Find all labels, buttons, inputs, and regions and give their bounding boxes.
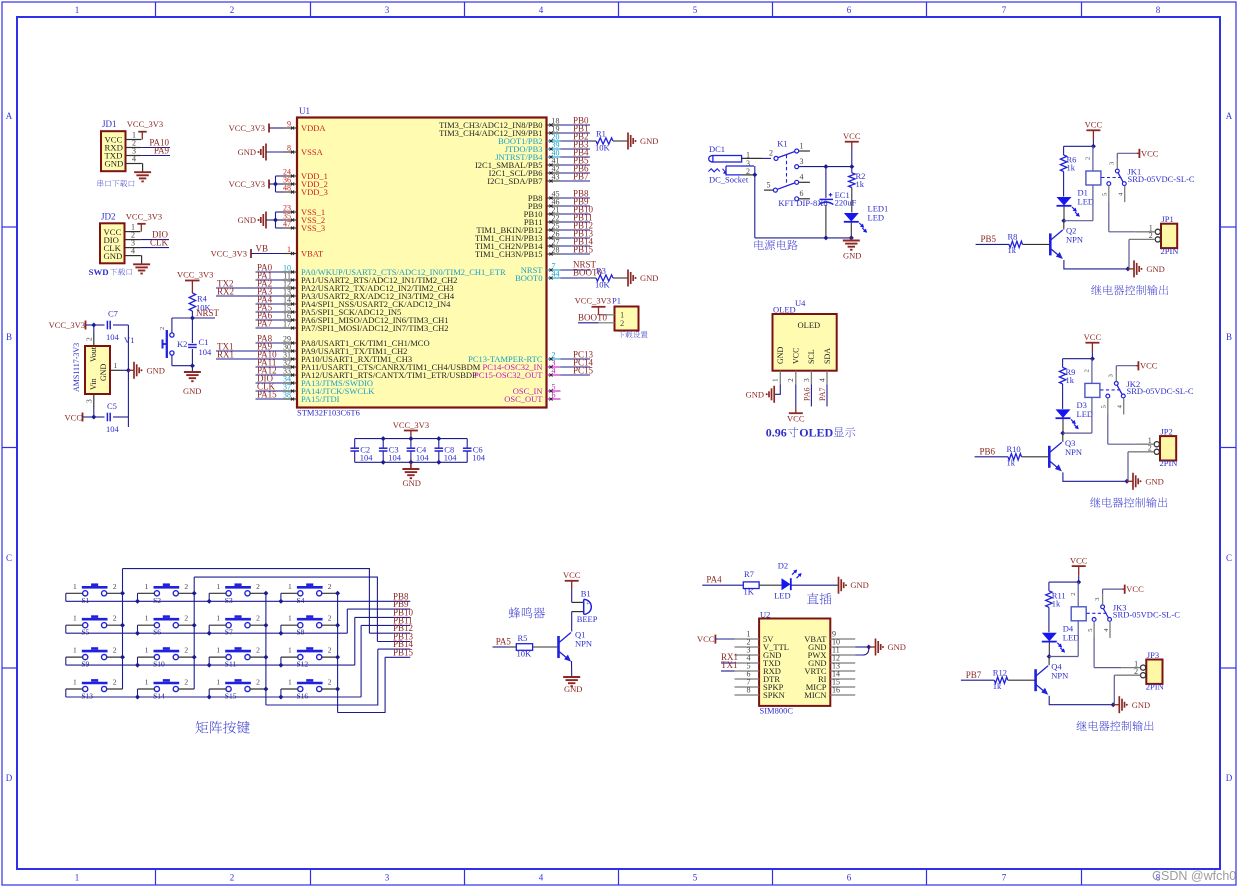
svg-text:2PIN: 2PIN <box>1161 246 1179 256</box>
node PB12 <box>561 229 591 231</box>
resistor R6 <box>1060 155 1066 172</box>
node PA5 <box>256 311 284 313</box>
svg-text:2: 2 <box>256 646 260 655</box>
svg-text:CSDN @wfch0: CSDN @wfch0 <box>1152 869 1236 883</box>
ground <box>1128 268 1134 270</box>
wire <box>572 611 584 613</box>
svg-text:GND: GND <box>1146 264 1164 274</box>
svg-text:S12: S12 <box>297 660 309 669</box>
svg-text:2: 2 <box>184 614 188 623</box>
svg-text:VDDA: VDDA <box>301 123 326 133</box>
label 下载设置 <box>618 331 648 338</box>
regulator V1 AMS1117-3V3 <box>85 346 110 394</box>
button S6 <box>154 623 159 628</box>
wire column 1 <box>122 569 124 689</box>
svg-text:1k: 1k <box>1008 245 1017 255</box>
svg-text:GND: GND <box>888 642 906 652</box>
svg-text:SDA: SDA <box>823 348 832 364</box>
svg-text:TIM1_CH3N/PB15: TIM1_CH3N/PB15 <box>475 249 543 259</box>
wire <box>94 324 105 326</box>
svg-text:1: 1 <box>145 646 149 655</box>
label 直插 <box>807 593 831 605</box>
svg-text:2PIN: 2PIN <box>1160 458 1178 468</box>
LED LED1 <box>851 188 853 213</box>
svg-text:VCC_3V3: VCC_3V3 <box>49 320 85 330</box>
ground <box>410 462 412 469</box>
svg-text:1: 1 <box>216 646 220 655</box>
node PB0 <box>561 124 591 126</box>
svg-text:NRST: NRST <box>196 308 220 318</box>
ground <box>141 163 142 165</box>
svg-text:1: 1 <box>216 614 220 623</box>
svg-text:3: 3 <box>802 378 811 382</box>
svg-text:S11: S11 <box>225 660 237 669</box>
svg-text:104: 104 <box>106 332 120 342</box>
svg-text:GND: GND <box>1145 476 1163 486</box>
svg-text:GND: GND <box>850 580 868 590</box>
relay JK1 SRD-05VDC-SL-C <box>1086 171 1101 185</box>
wire column 3 <box>265 593 267 705</box>
svg-text:TX1: TX1 <box>721 660 738 670</box>
wire <box>755 237 852 239</box>
svg-text:2: 2 <box>159 327 166 330</box>
svg-text:GND: GND <box>776 346 785 364</box>
node DIO <box>256 382 284 384</box>
label 矩阵按键 <box>195 721 249 734</box>
svg-text:NPN: NPN <box>1065 447 1082 457</box>
resistor R1 <box>590 140 596 142</box>
svg-text:5: 5 <box>1087 629 1094 632</box>
ground (U2) <box>855 646 869 648</box>
wire <box>208 593 210 601</box>
svg-text:1k: 1k <box>1052 598 1061 608</box>
svg-text:PB5: PB5 <box>981 234 997 244</box>
svg-text:3: 3 <box>1094 598 1101 601</box>
svg-text:NPN: NPN <box>575 639 592 649</box>
button S2 <box>154 591 159 596</box>
svg-text:104: 104 <box>199 347 213 357</box>
node PC13 <box>561 358 591 360</box>
wire <box>1128 239 1130 269</box>
svg-text:VSSA: VSSA <box>301 147 324 157</box>
svg-text:1: 1 <box>73 678 77 687</box>
svg-text:SRD-05VDC-SL-C: SRD-05VDC-SL-C <box>1128 174 1195 184</box>
svg-text:PB15: PB15 <box>573 245 594 255</box>
svg-text:10K: 10K <box>595 280 611 290</box>
svg-text:NPN: NPN <box>1051 670 1068 680</box>
svg-text:GND: GND <box>1132 700 1150 710</box>
node TX2 <box>216 287 256 289</box>
svg-text:GND: GND <box>183 386 201 396</box>
svg-text:2: 2 <box>328 614 332 623</box>
svg-text:1: 1 <box>145 614 149 623</box>
node PA6 <box>256 319 284 321</box>
svg-text:GND: GND <box>640 273 658 283</box>
ground <box>838 577 840 594</box>
transistor Q4 <box>1034 669 1037 691</box>
wire <box>1062 384 1064 409</box>
resistor R7 <box>743 582 759 589</box>
svg-text:2: 2 <box>1084 369 1091 372</box>
svg-text:D: D <box>6 773 13 783</box>
wire <box>208 625 210 633</box>
svg-text:1: 1 <box>216 582 220 591</box>
wire row 2 <box>66 632 348 634</box>
node DIO <box>140 239 169 241</box>
wire <box>571 661 573 677</box>
svg-text:S16: S16 <box>297 692 309 701</box>
svg-text:GND: GND <box>403 478 421 488</box>
node NRST <box>191 311 193 318</box>
svg-text:3: 3 <box>385 873 390 883</box>
svg-text:2: 2 <box>113 582 117 591</box>
node PA9 <box>256 350 284 352</box>
svg-text:S3: S3 <box>225 596 233 605</box>
svg-text:2: 2 <box>184 646 188 655</box>
svg-text:2: 2 <box>1070 593 1077 596</box>
svg-text:VCC: VCC <box>563 570 581 580</box>
svg-text:JP3: JP3 <box>1147 650 1159 660</box>
node TX1 <box>216 350 256 352</box>
svg-text:VCC: VCC <box>1140 361 1158 371</box>
node PB14 <box>561 245 591 247</box>
wire <box>280 689 282 697</box>
svg-text:104: 104 <box>416 453 430 463</box>
svg-text:1: 1 <box>771 378 780 382</box>
node PB1 <box>561 132 591 134</box>
svg-text:S4: S4 <box>297 596 305 605</box>
svg-text:K1: K1 <box>777 139 787 149</box>
resistor R9 <box>1059 367 1065 384</box>
svg-text:LED: LED <box>774 591 791 601</box>
svg-text:10K: 10K <box>595 143 611 153</box>
node PB15 <box>561 253 591 255</box>
node PB6 <box>561 172 591 174</box>
svg-text:VCC_3V3: VCC_3V3 <box>211 249 247 259</box>
svg-text:3: 3 <box>85 399 94 403</box>
svg-text:1: 1 <box>288 678 292 687</box>
svg-text:VCC_3V3: VCC_3V3 <box>127 119 163 129</box>
button S11 <box>226 655 231 660</box>
ground <box>563 676 580 678</box>
svg-text:4: 4 <box>539 873 544 883</box>
svg-text:4: 4 <box>1117 404 1124 408</box>
svg-text:1k: 1k <box>1067 163 1076 173</box>
wire <box>759 584 781 586</box>
svg-text:1: 1 <box>287 245 291 254</box>
svg-text:GND: GND <box>104 251 123 261</box>
svg-text:1: 1 <box>75 5 80 15</box>
label 继电器控制输出 <box>1077 721 1154 731</box>
button S9 <box>83 655 88 660</box>
svg-text:VCC_3V3: VCC_3V3 <box>177 270 213 280</box>
wire <box>137 625 139 633</box>
svg-text:10K: 10K <box>517 649 533 659</box>
label 串口下载口 <box>97 180 134 187</box>
svg-text:48: 48 <box>283 184 291 193</box>
svg-text:1: 1 <box>216 678 220 687</box>
transistor Q1 <box>557 636 560 658</box>
wire <box>1064 260 1128 269</box>
svg-text:PB7: PB7 <box>966 670 982 680</box>
svg-text:1k: 1k <box>993 681 1002 691</box>
svg-text:1: 1 <box>75 873 80 883</box>
svg-text:2: 2 <box>256 582 260 591</box>
svg-text:VSS_3: VSS_3 <box>301 223 325 233</box>
svg-text:2: 2 <box>328 582 332 591</box>
svg-text:104: 104 <box>106 424 120 434</box>
svg-text:7: 7 <box>1002 873 1007 883</box>
svg-text:D2: D2 <box>778 560 788 570</box>
svg-text:C: C <box>1226 553 1232 563</box>
wire <box>208 689 210 697</box>
svg-text:GND: GND <box>238 147 256 157</box>
svg-text:SRD-05VDC-SL-C: SRD-05VDC-SL-C <box>1113 610 1180 620</box>
svg-text:2: 2 <box>328 646 332 655</box>
svg-text:S1: S1 <box>81 596 89 605</box>
label 蜂鸣器 <box>509 607 545 618</box>
svg-text:PB6: PB6 <box>980 446 996 456</box>
wire <box>113 324 128 326</box>
wire <box>171 355 173 366</box>
wire <box>194 577 377 641</box>
svg-text:R12: R12 <box>993 667 1007 677</box>
wire <box>354 617 356 665</box>
svg-text:S9: S9 <box>81 660 89 669</box>
svg-text:OLED: OLED <box>773 305 796 315</box>
button S15 <box>226 686 231 691</box>
svg-text:JP1: JP1 <box>1162 214 1174 224</box>
svg-text:Vin: Vin <box>89 378 98 390</box>
wire <box>137 593 139 601</box>
node PA6 <box>810 385 812 407</box>
svg-text:R3: R3 <box>596 266 606 276</box>
button K2 <box>170 333 174 337</box>
wire <box>1063 472 1127 481</box>
wire column 2 <box>193 577 195 689</box>
svg-text:GND: GND <box>843 251 861 261</box>
svg-text:R5: R5 <box>518 633 528 643</box>
svg-text:PA7: PA7 <box>818 388 827 402</box>
node PA10 <box>256 358 284 360</box>
node PA8 <box>256 342 284 344</box>
wire <box>1091 352 1093 358</box>
power VCC (contact) <box>1115 366 1117 371</box>
button S14 <box>154 686 159 691</box>
wire <box>93 409 95 417</box>
node PA11 <box>256 366 284 368</box>
wire <box>1093 637 1095 668</box>
svg-text:1: 1 <box>800 142 804 151</box>
svg-text:VCC: VCC <box>1070 555 1088 565</box>
ground (R1) <box>613 140 628 142</box>
node PA2 <box>256 287 284 289</box>
svg-text:8: 8 <box>747 686 751 695</box>
svg-text:VCC_3V3: VCC_3V3 <box>229 123 265 133</box>
svg-text:A: A <box>6 111 13 121</box>
svg-text:C5: C5 <box>107 401 117 411</box>
label 电源电路 <box>754 240 797 250</box>
svg-text:GND: GND <box>564 684 582 694</box>
button S3 <box>226 591 231 596</box>
capacitor C3 <box>382 439 384 448</box>
svg-text:Vout: Vout <box>89 346 98 362</box>
resistor R8 <box>1009 241 1023 247</box>
svg-text:2: 2 <box>113 646 117 655</box>
svg-text:S15: S15 <box>225 692 237 701</box>
wire <box>571 589 573 602</box>
svg-text:NPN: NPN <box>1066 235 1083 245</box>
wire <box>137 657 139 665</box>
svg-text:DC1: DC1 <box>709 144 725 154</box>
svg-text:2: 2 <box>113 614 117 623</box>
wire <box>1063 207 1065 221</box>
svg-text:VDD_3: VDD_3 <box>301 187 328 197</box>
wire <box>280 625 282 633</box>
svg-text:PA15: PA15 <box>257 390 277 400</box>
relay JK2 SRD-05VDC-SL-C <box>1085 383 1100 397</box>
svg-text:DC_Socket: DC_Socket <box>709 175 749 185</box>
svg-text:PA6: PA6 <box>802 388 811 402</box>
wire <box>1113 675 1115 705</box>
svg-text:RX2: RX2 <box>217 287 234 297</box>
svg-text:104: 104 <box>388 453 402 463</box>
svg-text:S5: S5 <box>81 628 89 637</box>
svg-text:1: 1 <box>73 614 77 623</box>
svg-text:2PIN: 2PIN <box>1146 682 1164 692</box>
svg-text:104: 104 <box>360 453 374 463</box>
svg-text:2: 2 <box>256 614 260 623</box>
button S1 <box>83 591 88 596</box>
svg-text:SPKN: SPKN <box>763 690 785 700</box>
svg-text:PA7: PA7 <box>257 319 273 329</box>
resistor R3 <box>590 277 596 279</box>
svg-text:U1: U1 <box>299 106 310 116</box>
svg-text:S10: S10 <box>153 660 165 669</box>
node PB11 <box>561 221 591 223</box>
wire <box>65 657 67 665</box>
capacitor C6 <box>466 439 468 448</box>
svg-text:LED: LED <box>868 213 885 223</box>
svg-text:LED: LED <box>1078 197 1095 207</box>
node NRST <box>561 269 591 271</box>
resistor R4 <box>189 293 195 311</box>
svg-text:PA9: PA9 <box>154 146 170 156</box>
svg-text:S6: S6 <box>153 628 161 637</box>
svg-text:3: 3 <box>1108 374 1115 377</box>
svg-text:PA15/JTDI: PA15/JTDI <box>301 394 340 404</box>
node PA9 <box>141 155 170 157</box>
button S7 <box>226 623 231 628</box>
svg-text:2: 2 <box>113 678 117 687</box>
wire <box>799 166 826 168</box>
node PA1 <box>256 279 284 281</box>
svg-text:GND: GND <box>746 389 764 399</box>
svg-text:JP2: JP2 <box>1161 426 1173 436</box>
ground <box>1113 704 1119 706</box>
svg-text:C: C <box>6 553 12 563</box>
relay JK3 SRD-05VDC-SL-C <box>1071 607 1086 621</box>
resistor R12 <box>994 677 1008 683</box>
svg-text:BOOT0: BOOT0 <box>515 273 542 283</box>
svg-text:2: 2 <box>786 378 795 382</box>
svg-text:VCC: VCC <box>787 414 805 424</box>
svg-text:RX1: RX1 <box>217 350 234 360</box>
svg-text:2: 2 <box>620 318 624 328</box>
svg-text:2: 2 <box>85 337 94 341</box>
svg-text:I2C1_SDA/PB7: I2C1_SDA/PB7 <box>487 176 542 186</box>
capacitor C1 <box>188 344 197 346</box>
svg-text:5: 5 <box>1101 405 1108 408</box>
transistor Q2 <box>1049 233 1052 255</box>
svg-text:C1: C1 <box>199 337 209 347</box>
node PA4 <box>256 303 284 305</box>
svg-text:5: 5 <box>693 873 698 883</box>
svg-text:16: 16 <box>832 686 840 695</box>
button S4 <box>298 591 303 596</box>
wire <box>1062 419 1064 433</box>
svg-text:9: 9 <box>287 120 291 129</box>
svg-text:0.96: 0.96 <box>766 426 787 440</box>
svg-text:4: 4 <box>800 173 804 182</box>
svg-text:43: 43 <box>552 173 560 182</box>
svg-text:VCC_3V3: VCC_3V3 <box>126 211 162 221</box>
svg-text:GND: GND <box>640 136 658 146</box>
label 继电器控制输出 <box>1091 285 1168 295</box>
svg-text:PA5: PA5 <box>496 637 512 647</box>
svg-text:5: 5 <box>767 181 771 190</box>
LED D1 <box>1057 197 1072 206</box>
svg-text:VCC: VCC <box>1084 332 1102 342</box>
svg-text:3: 3 <box>800 157 804 166</box>
svg-text:P1: P1 <box>612 296 621 306</box>
node PB13 <box>561 237 591 239</box>
node RX1 <box>216 358 256 360</box>
node PB4 <box>561 156 591 158</box>
wire <box>266 649 378 705</box>
node CLK <box>256 390 284 392</box>
ground <box>850 238 852 241</box>
wire <box>1048 642 1050 656</box>
wire <box>742 174 755 176</box>
svg-text:S8: S8 <box>297 628 305 637</box>
svg-text:OLED: OLED <box>798 320 821 330</box>
wire <box>338 657 386 712</box>
wire <box>1078 576 1080 582</box>
wire <box>360 625 362 697</box>
svg-text:1K: 1K <box>744 587 755 597</box>
svg-text:6: 6 <box>847 873 852 883</box>
wire <box>1092 140 1094 146</box>
svg-text:1: 1 <box>73 646 77 655</box>
svg-text:SCL: SCL <box>807 349 816 364</box>
wire <box>355 461 468 463</box>
wire <box>65 593 67 601</box>
wire column 4 <box>337 593 339 712</box>
svg-text:VCC: VCC <box>1085 120 1103 130</box>
resistor R11 <box>1046 591 1052 608</box>
svg-text:1k: 1k <box>856 179 865 189</box>
capacitor C2 <box>354 439 356 448</box>
button S12 <box>298 655 303 660</box>
node PB3 <box>561 148 591 150</box>
svg-text:2: 2 <box>184 678 188 687</box>
svg-text:S2: S2 <box>153 596 161 605</box>
svg-text:OSC_OUT: OSC_OUT <box>504 394 543 404</box>
LED D3 <box>1056 409 1071 418</box>
node PB2 <box>561 140 591 142</box>
node CLK <box>140 247 169 249</box>
